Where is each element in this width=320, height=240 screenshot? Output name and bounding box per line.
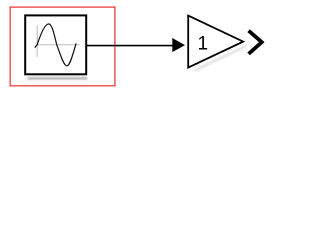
source block: Sine Wave (body): [25, 15, 86, 74]
wire (Sine Wave -> Gain): [87, 45, 174, 47]
unconnected output port chevron: [249, 31, 262, 54]
icon horizontal axis: [37, 44, 79, 46]
sine curve: [35, 24, 76, 66]
svg-text:1: 1: [198, 33, 209, 54]
icon vertical axis: [36, 26, 38, 57]
wire arrowhead: [172, 38, 185, 52]
gain block shadow: [195, 46, 247, 71]
block shadow (below Sine Wave block): [28, 77, 88, 80]
gain block U1 (triangle): [188, 16, 243, 68]
red selection rectangle: [10, 7, 115, 86]
